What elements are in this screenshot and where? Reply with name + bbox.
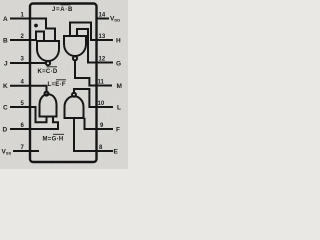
- overline for E·F: [56, 79, 66, 81]
- pin 12 stub + wire G to gate U1b: [77, 29, 112, 63]
- svg-text:L: L: [117, 105, 121, 112]
- svg-text:M=G·H: M=G·H: [43, 137, 64, 143]
- svg-text:K=C·D: K=C·D: [38, 69, 58, 75]
- node dot (junction) inside near B wire: [34, 24, 38, 28]
- svg-text:L=E·F: L=E·F: [48, 82, 66, 88]
- pin 8 stub + wire E to gate U1d: [74, 119, 112, 151]
- IC package body U1: [30, 4, 97, 163]
- pin 7 stub VSS: [14, 150, 38, 152]
- pin 13 stub + wire H to gate U1b: [70, 23, 112, 41]
- svg-text:C: C: [3, 105, 8, 112]
- svg-text:13: 13: [99, 34, 106, 40]
- gate U1b output bubble: [73, 56, 77, 60]
- wire L output to pin 10 stub: [74, 89, 112, 107]
- svg-text:VDD: VDD: [110, 16, 120, 23]
- gate U1c output bubble: [45, 92, 49, 96]
- paper grain: [0, 0, 128, 169]
- gate U1d (NAND L) body: [65, 96, 84, 118]
- svg-text:12: 12: [99, 57, 106, 63]
- svg-text:G: G: [116, 61, 121, 68]
- overline for C·D: [47, 66, 58, 68]
- svg-text:A: A: [3, 16, 8, 23]
- gate U1a (NAND J) body: [37, 41, 59, 61]
- pin 14 stub VDD: [97, 18, 109, 20]
- pin 9 stub + wire F to gate U1d: [85, 119, 113, 129]
- svg-text:B: B: [3, 38, 8, 45]
- svg-text:M: M: [117, 83, 122, 90]
- gate U1c (NAND K) body: [40, 94, 57, 116]
- pin 2 stub + wire B to gate U1a: [11, 32, 44, 42]
- gate U1d output bubble: [72, 93, 76, 97]
- wire M output to pin 11 stub: [75, 60, 111, 85]
- svg-text:E: E: [114, 149, 119, 156]
- pin 5 stub + wire C to gate U1c: [11, 107, 47, 122]
- svg-text:J=A·B: J=A·B: [52, 7, 73, 13]
- pin 6 stub + wire D to gate U1c: [11, 117, 58, 129]
- svg-text:H: H: [116, 38, 121, 45]
- gate U1a output bubble: [46, 61, 50, 65]
- svg-text:14: 14: [99, 13, 106, 19]
- svg-text:F: F: [116, 127, 120, 134]
- svg-text:J: J: [4, 61, 8, 68]
- wire K output to pin 4 stub: [11, 86, 47, 92]
- svg-text:D: D: [3, 127, 8, 134]
- svg-text:11: 11: [98, 80, 105, 86]
- pin 1 stub + wire A to gate U1a: [11, 19, 55, 42]
- svg-text:10: 10: [98, 101, 105, 107]
- overline for A·B: [61, 4, 71, 6]
- svg-text:VSS: VSS: [2, 149, 12, 156]
- overline for G·H: [53, 133, 64, 135]
- gate U1b (NAND M) body: [64, 36, 86, 56]
- svg-text:K: K: [3, 83, 8, 90]
- wire J output to pin 3 stub: [11, 62, 46, 64]
